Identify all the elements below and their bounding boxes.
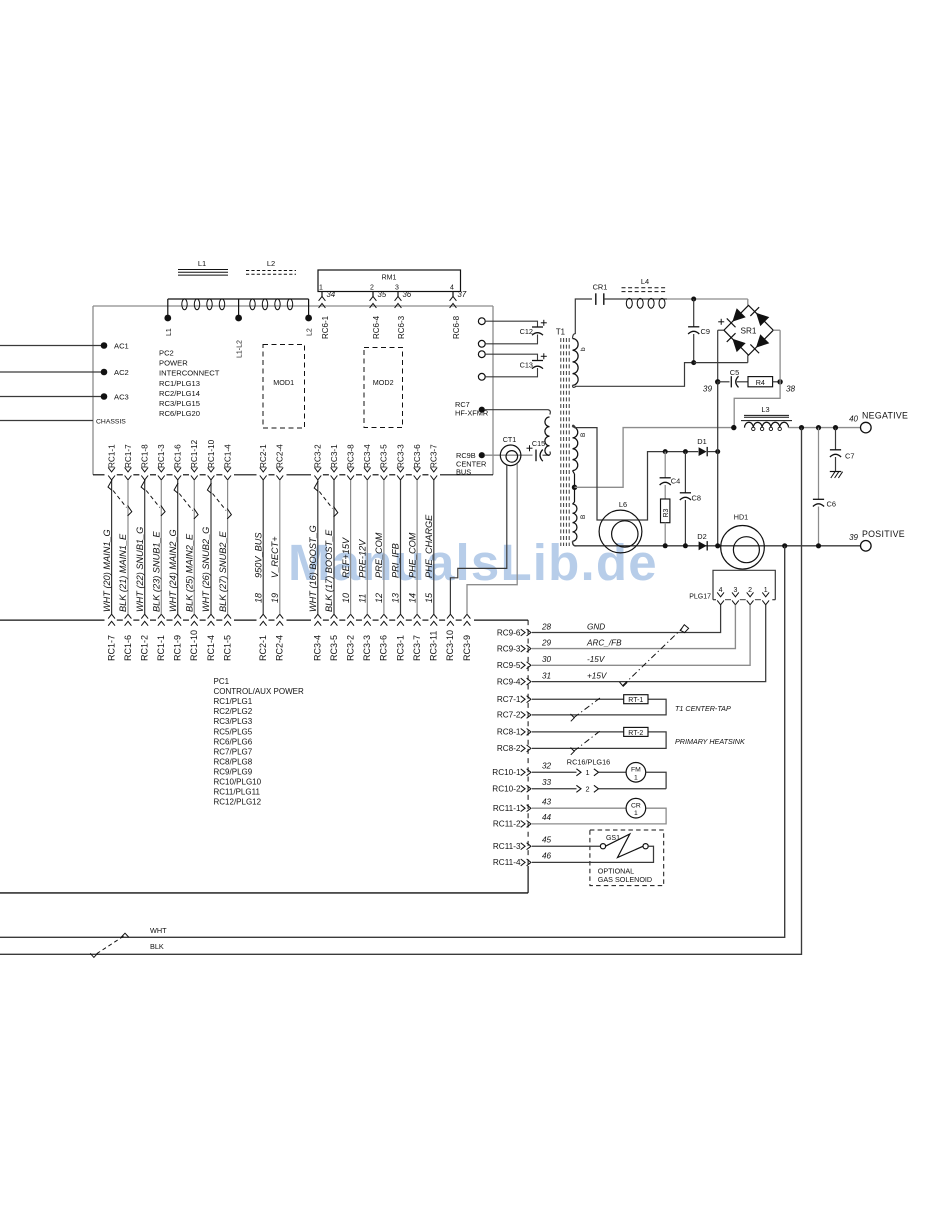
svg-text:RC9-5: RC9-5 <box>497 661 521 670</box>
RM1 pin 3 connector chevrons RC6 <box>395 296 402 300</box>
svg-text:-15V: -15V <box>587 655 606 664</box>
PC1 right edge dashed connector boundary <box>527 620 529 866</box>
svg-text:REF+15V: REF+15V <box>341 537 351 578</box>
capacitor CR1 (spark gap) <box>595 293 597 305</box>
svg-text:1: 1 <box>634 810 638 817</box>
svg-text:C9: C9 <box>701 327 710 336</box>
capacitor C13 <box>532 360 543 362</box>
svg-text:+15V: +15V <box>587 671 608 680</box>
wire node 38 down to negative bus <box>734 382 780 428</box>
harness mark diagonal <box>623 629 682 686</box>
cable wire BLK (27) SNUB2_E <box>227 480 229 614</box>
svg-text:33: 33 <box>542 778 552 787</box>
svg-text:RC1-8: RC1-8 <box>141 444 150 468</box>
junction C9 bottom <box>691 360 696 365</box>
svg-text:PHE_COM: PHE_COM <box>407 532 417 578</box>
svg-text:RC9-4: RC9-4 <box>497 677 521 686</box>
svg-text:950V_BUS: 950V_BUS <box>253 532 263 578</box>
svg-text:C12: C12 <box>520 327 533 336</box>
PC2 pin RC1-7 chevrons <box>125 468 132 472</box>
svg-text:RC11-3: RC11-3 <box>493 842 521 851</box>
svg-text:RT-2: RT-2 <box>628 730 643 737</box>
svg-text:C15: C15 <box>532 439 545 448</box>
svg-text:CR: CR <box>631 802 641 809</box>
PC2 terminal circle 1 <box>478 318 485 325</box>
cable wire BLK (21) MAIN1_E <box>127 480 129 614</box>
svg-text:RC3-7: RC3-7 <box>412 635 422 661</box>
svg-text:40: 40 <box>849 414 858 423</box>
PC1 bottom edge <box>0 892 528 894</box>
svg-text:PHE_CHARGE: PHE_CHARGE <box>424 514 434 578</box>
svg-text:PC1: PC1 <box>214 677 230 686</box>
svg-text:PLG17: PLG17 <box>689 594 711 601</box>
svg-text:RC3-6: RC3-6 <box>379 635 389 661</box>
wire PLG17-4 to RC9-6 GND <box>532 605 721 633</box>
PC2 pin RC3-8 chevrons <box>347 468 354 472</box>
inductor L1 core <box>178 269 228 271</box>
junction D2 node <box>715 543 720 548</box>
capacitor C9 <box>693 299 695 327</box>
PC1 pin RC1-6 chevrons <box>125 614 132 618</box>
svg-text:RC1-6: RC1-6 <box>174 444 183 468</box>
junction C6 top <box>816 425 821 430</box>
svg-text:WHT (24) MAIN2_G: WHT (24) MAIN2_G <box>168 529 178 612</box>
svg-text:BLK (25) MAIN2_E: BLK (25) MAIN2_E <box>185 533 195 612</box>
svg-text:RC3-8: RC3-8 <box>346 444 355 468</box>
svg-text:11: 11 <box>358 594 368 603</box>
PC2 power interconnect board outline <box>93 305 493 307</box>
svg-text:RC1-12: RC1-12 <box>190 439 199 468</box>
svg-text:C8: C8 <box>692 493 701 502</box>
PC2 pin RC1-6 chevrons <box>174 468 181 472</box>
svg-text:RT-1: RT-1 <box>628 697 643 704</box>
svg-text:12: 12 <box>374 593 384 603</box>
PC1 pin RC2-1 chevrons <box>260 614 267 618</box>
wire SR1 - corner to node 38 <box>773 329 780 331</box>
PC1 control board top edge <box>0 619 105 621</box>
PC2 pin RC3-2 chevrons <box>314 468 321 472</box>
terminal 39 POSITIVE <box>861 541 872 552</box>
svg-text:43: 43 <box>542 798 552 807</box>
PC2 pin RC1-10 chevrons <box>208 468 215 472</box>
wire L1-L2 top bus <box>168 298 309 300</box>
cable wire PRE-12V <box>366 480 368 614</box>
svg-text:RC1/PLG13: RC1/PLG13 <box>159 379 200 388</box>
svg-text:RC1-7: RC1-7 <box>106 635 116 661</box>
wire PLG17-3 to RC9-3 ARC_/FB <box>532 605 735 649</box>
svg-text:3: 3 <box>733 587 737 594</box>
T1 aux winding (left) <box>545 417 550 455</box>
svg-text:RC12/PLG12: RC12/PLG12 <box>214 798 262 807</box>
PC2 pin RC3-1 chevrons <box>331 468 338 472</box>
svg-text:V_RECT+: V_RECT+ <box>270 536 280 578</box>
PC1 pin RC3-9 chevrons <box>464 614 471 618</box>
svg-text:RC1-4: RC1-4 <box>223 444 232 468</box>
twisted pair marks on cable wires <box>108 480 112 490</box>
RM1 pin 1 connector chevrons RC6 <box>319 296 326 300</box>
svg-text:PRIMARY HEATSINK: PRIMARY HEATSINK <box>675 737 746 746</box>
PC1 pin RC3-10 chevrons <box>447 614 454 618</box>
svg-text:RC3-1: RC3-1 <box>330 444 339 468</box>
PC2 bottom edge solid segments <box>93 474 105 476</box>
svg-text:AC2: AC2 <box>114 368 129 377</box>
svg-text:4: 4 <box>450 284 454 291</box>
svg-text:RC9-3: RC9-3 <box>497 644 521 653</box>
SR1 diode bottom-left <box>732 339 745 352</box>
svg-text:RC3-5: RC3-5 <box>329 635 339 661</box>
svg-text:C5: C5 <box>730 368 739 377</box>
svg-text:RC8/PLG8: RC8/PLG8 <box>214 757 253 766</box>
svg-text:L1: L1 <box>198 259 206 268</box>
PC1 pin RC1-2 chevrons <box>141 614 148 618</box>
svg-text:45: 45 <box>542 836 552 845</box>
svg-text:RC8-1: RC8-1 <box>497 728 521 737</box>
capacitor C7 to chassis <box>835 428 837 450</box>
svg-text:RC3/PLG3: RC3/PLG3 <box>214 717 253 726</box>
svg-text:RC1-7: RC1-7 <box>124 444 133 468</box>
PC1 pin RC3-3 chevrons <box>364 614 371 618</box>
PC1 pin RC3-6 chevrons <box>381 614 388 618</box>
resistor R3 <box>664 485 666 499</box>
junction node 39 <box>715 379 720 384</box>
svg-text:WHT: WHT <box>150 926 167 935</box>
gas solenoid GS1 dashed box <box>590 830 664 886</box>
junction negative bus left <box>731 425 736 430</box>
AC2 input wire <box>0 371 104 373</box>
cable wire PHE_COM <box>416 480 418 614</box>
svg-text:39: 39 <box>703 385 713 394</box>
svg-text:WHT (22) SNUB1_G: WHT (22) SNUB1_G <box>135 527 145 612</box>
svg-text:RC16/PLG16: RC16/PLG16 <box>567 758 610 767</box>
resistor R4 <box>748 377 773 387</box>
PC2 pin RC1-3 chevrons <box>158 468 165 472</box>
inductor L4 core (dashed) <box>622 287 668 289</box>
svg-text:BLK (23) SNUB1_E: BLK (23) SNUB1_E <box>152 530 162 612</box>
capacitor C12 <box>532 326 543 328</box>
svg-text:39: 39 <box>849 533 858 542</box>
svg-text:RC3-4: RC3-4 <box>363 444 372 468</box>
svg-text:RC11-2: RC11-2 <box>493 820 521 829</box>
svg-text:RC3-11: RC3-11 <box>429 631 439 661</box>
junction C8 top <box>683 449 688 454</box>
current transformer CT1 <box>500 445 521 466</box>
wire BLK negative return <box>0 428 802 955</box>
module MOD1 dashed box <box>263 345 305 429</box>
capacitor C12 loop wires <box>485 321 537 327</box>
SR1 diode top-right <box>756 313 769 326</box>
svg-text:CT1: CT1 <box>503 435 517 444</box>
svg-text:R3: R3 <box>663 508 670 517</box>
svg-text:L6: L6 <box>619 500 627 509</box>
boost node vertical wire 39 to positive rail <box>717 382 719 546</box>
PC1 pin RC3-5 chevrons <box>331 614 338 618</box>
svg-text:RC10-1: RC10-1 <box>492 768 521 777</box>
PC1 pin RC1-4 chevrons <box>208 614 215 618</box>
AC1 terminal <box>101 342 108 349</box>
capacitor C6 <box>818 428 820 500</box>
inductor L4 winding <box>626 298 632 308</box>
PC1 pin RC1-7 chevrons <box>108 614 115 618</box>
svg-text:HF-XFMR: HF-XFMR <box>455 409 488 418</box>
svg-text:34: 34 <box>327 290 336 299</box>
PC1 pin RC3-4 chevrons <box>314 614 321 618</box>
svg-text:B: B <box>580 515 587 519</box>
PC2 pin RC2-1 chevrons <box>260 468 267 472</box>
svg-text:2: 2 <box>370 284 374 291</box>
svg-text:19: 19 <box>270 593 280 603</box>
FM1 loop right side <box>646 772 666 789</box>
junction C9 top <box>691 297 696 302</box>
svg-text:RC3-2: RC3-2 <box>345 635 355 661</box>
cable wire WHT (26) SNUB2_G <box>210 480 212 614</box>
RM1 pin 4 wire <box>452 292 454 298</box>
cable wire BLK (25) MAIN2_E <box>193 480 195 614</box>
wire T1 primary bottom return <box>573 363 692 388</box>
svg-text:RC3-3: RC3-3 <box>396 444 405 468</box>
toroid HD1 <box>721 526 765 570</box>
PC2 pin RC3-3 chevrons <box>397 468 404 472</box>
junction C8 bottom <box>683 543 688 548</box>
RC16 pin 2 <box>532 788 577 790</box>
svg-text:44: 44 <box>542 813 552 822</box>
svg-text:L1-L2: L1-L2 <box>237 340 244 358</box>
cable wire WHT (24) MAIN2_G <box>177 480 179 614</box>
svg-text:ARC_/FB: ARC_/FB <box>586 638 622 647</box>
svg-text:RC7-1: RC7-1 <box>497 695 521 704</box>
svg-text:GND: GND <box>587 622 605 631</box>
svg-text:GS1: GS1 <box>606 835 620 842</box>
PC1 pin RC3-11 chevrons <box>430 614 437 618</box>
svg-text:RC2-1: RC2-1 <box>259 444 268 468</box>
RM1 pin 4 connector chevrons RC6 <box>450 296 457 300</box>
svg-text:SR1: SR1 <box>741 327 757 336</box>
PC2 pin RC2-4 chevrons <box>276 468 283 472</box>
svg-text:RC6/PLG6: RC6/PLG6 <box>214 737 253 746</box>
junction C4 top <box>663 449 668 454</box>
toroid inductor L6 <box>599 510 642 553</box>
svg-text:RC6-8: RC6-8 <box>452 315 461 339</box>
svg-text:RC2-1: RC2-1 <box>258 635 268 661</box>
capacitor C15 <box>527 447 533 449</box>
terminal 40 NEGATIVE <box>861 422 872 433</box>
PC2 pin RC3-6 chevrons <box>414 468 421 472</box>
cable wire PRI_IFB <box>400 480 402 614</box>
RT-1 actuator diagonal <box>574 697 602 718</box>
wire T1 secondary top through L6 to D1 branch <box>573 425 699 520</box>
svg-text:BUS: BUS <box>456 468 471 477</box>
svg-text:RC1-3: RC1-3 <box>157 444 166 468</box>
svg-text:32: 32 <box>542 762 552 771</box>
svg-text:RC8-2: RC8-2 <box>497 744 521 753</box>
inductor L3 winding <box>745 422 789 427</box>
svg-text:RC2-4: RC2-4 <box>276 444 285 468</box>
svg-text:RC5/PLG5: RC5/PLG5 <box>214 727 253 736</box>
svg-text:15: 15 <box>424 592 434 603</box>
T1 primary winding (upper right, b) <box>573 339 579 386</box>
PC2 pin RC1-4 chevrons <box>224 468 231 472</box>
junction node 38 <box>777 379 782 384</box>
RT-2 actuator diagonal <box>574 730 602 752</box>
svg-text:WHT (26) SNUB2_G: WHT (26) SNUB2_G <box>201 527 211 612</box>
GS1 wire and contacts <box>532 845 600 847</box>
svg-text:RC3-3: RC3-3 <box>362 635 372 661</box>
svg-text:GAS SOLENOID: GAS SOLENOID <box>598 875 652 884</box>
svg-text:FM: FM <box>631 767 641 774</box>
wire C15 to T1 winding <box>543 452 551 456</box>
svg-text:RC1-2: RC1-2 <box>140 635 150 661</box>
junction C4/R3 bottom <box>663 543 668 548</box>
svg-text:POWER: POWER <box>159 359 188 368</box>
svg-text:R4: R4 <box>756 378 765 387</box>
svg-text:2: 2 <box>586 785 590 794</box>
capacitor C13 loop wires <box>485 354 537 360</box>
CT1 right sense lead <box>467 464 517 614</box>
svg-text:1: 1 <box>764 587 768 594</box>
PC1 pin RC3-1 chevrons <box>397 614 404 618</box>
RM1 pin 1 wire <box>321 292 323 298</box>
module MOD2 dashed box <box>364 348 403 428</box>
T1 center tap junction <box>573 471 575 474</box>
svg-text:1: 1 <box>319 284 323 291</box>
svg-text:RM1: RM1 <box>382 274 397 281</box>
cable wire WHT (22) SNUB1_G <box>144 480 146 614</box>
PC2 pin RC1-1 chevrons <box>108 468 115 472</box>
wire D1 cathode to boost node <box>707 451 718 453</box>
wire RC9B center bus through CT1 <box>485 454 533 456</box>
svg-text:POSITIVE: POSITIVE <box>862 529 905 539</box>
thermostat RT-1 <box>624 695 648 704</box>
svg-text:CONTROL/AUX POWER: CONTROL/AUX POWER <box>214 687 304 696</box>
svg-text:RC3-5: RC3-5 <box>380 444 389 468</box>
svg-text:CHASSIS: CHASSIS <box>96 418 126 425</box>
RC9B CENTER BUS terminal <box>479 452 485 458</box>
svg-text:RC10-2: RC10-2 <box>492 785 521 794</box>
thermostat RT-2 <box>624 727 648 736</box>
svg-text:28: 28 <box>541 622 552 631</box>
cable wire WHT (20) MAIN1_G <box>111 480 113 614</box>
wire RC7 to T1 winding <box>485 410 551 415</box>
cable wire WHT (16) BOOST_G <box>317 480 319 614</box>
svg-text:WHT (20) MAIN1_G: WHT (20) MAIN1_G <box>102 529 112 612</box>
transformer T1 core (dashed laminations) <box>560 338 562 546</box>
svg-text:RC3-4: RC3-4 <box>313 635 323 661</box>
svg-text:AC3: AC3 <box>114 393 129 402</box>
svg-text:D1: D1 <box>697 437 706 446</box>
svg-text:T1 CENTER-TAP: T1 CENTER-TAP <box>675 704 731 713</box>
chassis ground symbol <box>830 471 842 473</box>
svg-text:RC2/PLG14: RC2/PLG14 <box>159 389 200 398</box>
svg-text:NEGATIVE: NEGATIVE <box>862 411 908 421</box>
svg-text:RC7-2: RC7-2 <box>497 711 521 720</box>
PC2 pin RC1-8 chevrons <box>141 468 148 472</box>
svg-text:C4: C4 <box>671 476 680 485</box>
svg-text:RC9/PLG9: RC9/PLG9 <box>214 767 253 776</box>
svg-text:BLK: BLK <box>150 942 164 951</box>
inductor L2 core (dashed) <box>246 270 296 272</box>
svg-text:38: 38 <box>786 385 796 394</box>
svg-text:RC7/PLG7: RC7/PLG7 <box>214 747 253 756</box>
svg-text:RC3/PLG15: RC3/PLG15 <box>159 399 200 408</box>
CT1 left sense lead <box>450 465 506 615</box>
wire CR1 to L4 <box>604 298 624 300</box>
svg-text:L2: L2 <box>267 259 275 268</box>
svg-text:10: 10 <box>341 593 351 603</box>
svg-text:B: B <box>580 433 587 437</box>
capacitor C5 <box>718 381 730 383</box>
svg-text:31: 31 <box>542 671 551 680</box>
RM1 pin 2 connector chevrons RC6 <box>370 296 377 300</box>
svg-text:WHT (16) BOOST_G: WHT (16) BOOST_G <box>308 525 318 612</box>
svg-text:BLK (27) SNUB2_E: BLK (27) SNUB2_E <box>218 530 228 612</box>
svg-text:RC1-5: RC1-5 <box>222 635 232 661</box>
svg-text:BLK (21) MAIN1_E: BLK (21) MAIN1_E <box>118 533 128 612</box>
wire C5 to R4 <box>737 381 748 383</box>
wire T1 center tap to negative bus <box>575 428 734 488</box>
AC1 input wire <box>0 345 104 347</box>
svg-text:L3: L3 <box>761 405 769 414</box>
svg-text:PRE_COM: PRE_COM <box>374 532 384 578</box>
cable wire PRE_COM <box>383 480 385 614</box>
junction C7 top <box>833 425 838 430</box>
svg-text:PC2: PC2 <box>159 349 174 358</box>
SR1 diode bottom-right <box>756 334 769 347</box>
svg-text:RC2-4: RC2-4 <box>275 635 285 661</box>
svg-text:18: 18 <box>253 593 263 603</box>
svg-text:L1: L1 <box>166 328 173 336</box>
svg-text:RC3-10: RC3-10 <box>445 630 455 661</box>
diode D2 <box>699 541 707 550</box>
RM1 pin 3 wire <box>397 292 399 298</box>
wire L2 right terminal drop <box>308 299 310 318</box>
svg-text:RC1-1: RC1-1 <box>156 635 166 661</box>
svg-text:RC6-1: RC6-1 <box>321 315 330 339</box>
bridge rectifier SR1 diamond <box>724 305 773 355</box>
svg-text:3: 3 <box>395 284 399 291</box>
RC7 HF-XFMR terminal <box>479 407 485 413</box>
junction D1 node <box>715 449 720 454</box>
cable wire PHE_CHARGE <box>433 480 435 614</box>
svg-text:L2: L2 <box>307 328 314 336</box>
RC16 pin 1 <box>532 771 577 773</box>
svg-text:INTERCONNECT: INTERCONNECT <box>159 369 220 378</box>
PC1 pin RC1-9 chevrons <box>174 614 181 618</box>
svg-text:RC3-2: RC3-2 <box>314 444 323 468</box>
wire into SR1 top corner <box>747 299 749 305</box>
svg-text:14: 14 <box>407 593 417 603</box>
AC2 terminal <box>101 369 108 376</box>
cable wire BLK (17) BOOST_E <box>333 480 335 614</box>
svg-text:4: 4 <box>719 587 723 594</box>
junction WHT riser <box>782 543 787 548</box>
PC1 pin RC1-10 chevrons <box>191 614 198 618</box>
svg-text:13: 13 <box>391 593 401 603</box>
svg-text:RC11-4: RC11-4 <box>493 858 521 867</box>
T1 secondary lower winding (B) <box>573 504 577 541</box>
svg-text:C6: C6 <box>827 499 836 508</box>
capacitor C8 <box>684 452 686 493</box>
svg-text:AC1: AC1 <box>114 342 129 351</box>
SR1 diode top-left <box>732 308 745 321</box>
svg-text:MOD2: MOD2 <box>373 378 394 387</box>
junction BLK riser <box>799 425 804 430</box>
PC2 terminal circle 4 <box>478 373 485 380</box>
svg-text:L4: L4 <box>641 277 649 286</box>
svg-text:30: 30 <box>542 655 552 664</box>
PC1 pin RC3-2 chevrons <box>347 614 354 618</box>
svg-text:D2: D2 <box>697 532 706 541</box>
wire R4 to node 38 <box>773 381 781 383</box>
svg-text:CR1: CR1 <box>593 283 608 292</box>
